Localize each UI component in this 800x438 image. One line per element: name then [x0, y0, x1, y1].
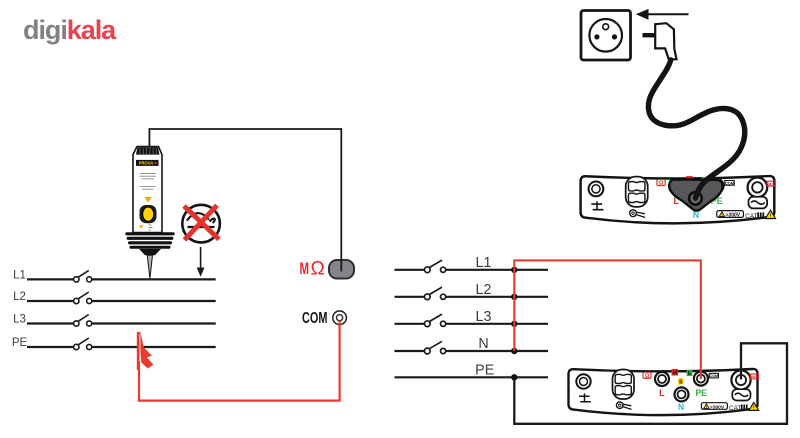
- svg-text:L3: L3: [476, 309, 492, 325]
- svg-text:L1: L1: [13, 270, 26, 282]
- switch on right N: [424, 341, 445, 354]
- junction node L3: [511, 321, 517, 327]
- svg-text:M: M: [300, 260, 310, 278]
- test plug block on top panel: [669, 180, 722, 211]
- switch on L2: [74, 292, 92, 304]
- right line L3: [395, 309, 549, 325]
- right line L2: [395, 282, 549, 298]
- switch on right L1: [424, 260, 445, 273]
- M-ohm label: [300, 259, 325, 280]
- junction node N: [511, 348, 517, 354]
- red jumper wire to bottom PE terminal: [514, 260, 701, 379]
- svg-text:PROVA: PROVA: [139, 161, 154, 166]
- crocodile clip on PE: [137, 331, 154, 370]
- left line L2: [13, 291, 216, 303]
- left line L3: [13, 314, 216, 326]
- red lead COM to crocodile clip: [139, 321, 340, 401]
- right line L1: [395, 255, 549, 271]
- M-ohm terminal blob: [329, 260, 354, 279]
- right line PE: [395, 362, 549, 378]
- svg-text:L3: L3: [13, 314, 26, 326]
- analyzer panel (bottom): [569, 369, 759, 415]
- svg-text:digikala: digikala: [23, 15, 117, 45]
- switch on left PE: [74, 338, 92, 350]
- COM terminal: [333, 311, 347, 325]
- svg-text:Ω: Ω: [311, 259, 325, 280]
- power cord from plug to test block: [648, 60, 744, 198]
- left line PE: [12, 337, 216, 349]
- left line L1: [13, 270, 216, 282]
- switch on L3: [74, 315, 92, 327]
- junction node PE: [511, 374, 517, 380]
- black wire PE to bottom M-ohm terminal: [514, 343, 787, 424]
- wire tester to M-ohm terminal: [149, 129, 341, 272]
- switch on right L3: [424, 314, 445, 327]
- wall socket: [581, 11, 631, 61]
- analyzer panel (top): [581, 176, 776, 223]
- svg-text:L1: L1: [476, 255, 492, 271]
- mains plug: [643, 23, 677, 59]
- voltage tester probe: [125, 147, 174, 279]
- svg-text:COM: COM: [302, 310, 328, 327]
- svg-text:L2: L2: [13, 291, 26, 303]
- right line N: [395, 336, 549, 352]
- svg-text:PE: PE: [12, 337, 28, 349]
- junction node L2: [511, 294, 517, 300]
- arrow pointing to socket: [636, 9, 689, 20]
- svg-text:PE: PE: [475, 362, 494, 378]
- junction node L1: [511, 267, 517, 273]
- switch on L1: [74, 270, 92, 282]
- arrow onto L1: [197, 247, 205, 277]
- no-touch symbol: [182, 205, 220, 243]
- svg-text:N: N: [478, 336, 488, 352]
- switch on right L2: [424, 287, 445, 300]
- svg-text:L2: L2: [476, 282, 492, 298]
